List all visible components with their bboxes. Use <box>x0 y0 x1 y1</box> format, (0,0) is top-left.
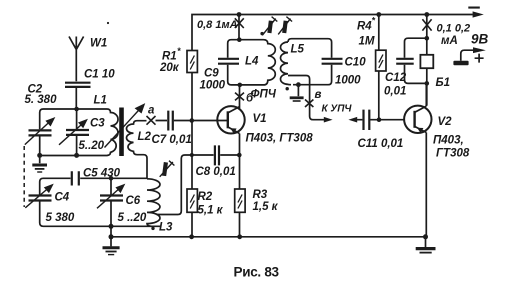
svg-text:5 ..20: 5 ..20 <box>118 212 147 224</box>
svg-text:в: в <box>315 89 322 101</box>
svg-text:1,5 к: 1,5 к <box>253 201 279 213</box>
svg-text:С12: С12 <box>385 72 407 84</box>
svg-text:C6: C6 <box>126 195 141 207</box>
svg-text:С11 0,01: С11 0,01 <box>358 138 404 150</box>
svg-text:*: * <box>177 46 181 56</box>
svg-text:R1: R1 <box>162 51 177 63</box>
svg-text:1000: 1000 <box>200 80 226 92</box>
svg-text:C10: C10 <box>345 57 367 69</box>
svg-text:0,8 1мА: 0,8 1мА <box>197 19 238 31</box>
svg-text:1000: 1000 <box>335 75 361 87</box>
svg-text:5. 380: 5. 380 <box>25 94 58 106</box>
svg-text:C5 430: C5 430 <box>83 168 121 180</box>
svg-text:C4: C4 <box>55 192 70 204</box>
svg-text:20к: 20к <box>159 62 180 74</box>
svg-text:0,1 0,2: 0,1 0,2 <box>437 23 471 35</box>
svg-text:C7 0,01: C7 0,01 <box>152 134 192 146</box>
svg-text:К УПЧ: К УПЧ <box>322 104 353 115</box>
svg-text:L4: L4 <box>245 56 259 68</box>
svg-text:L2: L2 <box>138 131 152 143</box>
svg-text:L3: L3 <box>159 222 173 234</box>
svg-text:*: * <box>372 16 376 26</box>
svg-text:V2: V2 <box>438 116 453 128</box>
svg-text:б: б <box>246 93 254 105</box>
svg-text:мА: мА <box>441 35 458 47</box>
svg-text:5..20: 5..20 <box>79 140 105 152</box>
svg-text:V1: V1 <box>253 113 267 125</box>
svg-text:ГТ308: ГТ308 <box>436 148 470 160</box>
svg-text:W1: W1 <box>90 38 107 50</box>
svg-text:R3: R3 <box>253 189 268 201</box>
svg-text:1М: 1М <box>359 36 375 48</box>
svg-text:Б1: Б1 <box>436 77 451 89</box>
svg-text:C9: C9 <box>204 68 219 80</box>
svg-text:П403,: П403, <box>433 135 464 147</box>
svg-text:9В: 9В <box>471 32 489 47</box>
svg-text:C3: C3 <box>90 118 105 130</box>
svg-text:а: а <box>148 105 155 117</box>
svg-text:П403, ГТ308: П403, ГТ308 <box>246 133 314 145</box>
svg-text:ФПЧ: ФПЧ <box>251 89 277 101</box>
svg-text:C8 0,01: C8 0,01 <box>196 166 236 178</box>
svg-text:L1: L1 <box>94 95 107 107</box>
svg-text:5 380: 5 380 <box>46 212 75 224</box>
svg-text:5,1 к: 5,1 к <box>198 205 224 217</box>
svg-text:Рис. 83: Рис. 83 <box>234 265 280 280</box>
svg-text:R2: R2 <box>198 191 213 203</box>
svg-text:0,01: 0,01 <box>384 86 406 98</box>
svg-text:C1 10: C1 10 <box>84 69 115 81</box>
svg-text:L5: L5 <box>291 44 305 56</box>
svg-text:R4: R4 <box>357 21 372 33</box>
